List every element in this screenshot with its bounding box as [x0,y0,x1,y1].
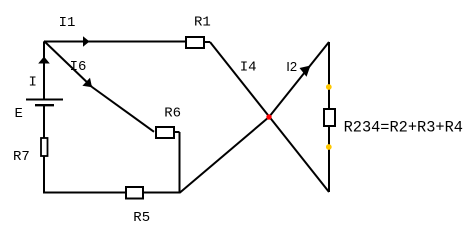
svg-text:I2: I2 [286,59,297,74]
wire R1 right stub [204,41,210,43]
wire battery to R7 [43,105,45,138]
wire I6 diagonal lower segment to R6 [92,87,154,132]
wire R6 right stub [174,131,180,133]
node terminal lower yellow dot [326,144,332,150]
current arrow I2 [300,66,311,77]
battery E short plate [35,104,54,106]
wire I2 lower segment from bottom junction to node [180,117,269,193]
wire R7 to bottom wire [43,156,45,194]
resistor R5 [126,187,143,199]
wire R6 down vertical to bottom junction [179,132,181,194]
svg-text:I4: I4 [240,60,257,76]
svg-text:I6: I6 [70,59,87,75]
wire left vertical from node A down to battery [43,42,45,100]
resistor R1 [186,37,204,48]
node junction red dot [266,114,271,119]
current arrow I6 [82,78,92,88]
resistor R7 [41,138,48,156]
svg-text:E: E [15,106,23,122]
wire I4 diagonal from R1 to bottom vertex [210,42,329,192]
wire right vertical from peak down to bottom vertex [328,42,330,192]
svg-text:R5: R5 [133,210,150,226]
wire bottom right horizontal to junction [143,192,180,194]
battery E long plate [26,99,63,101]
svg-text:I: I [29,75,37,91]
svg-text:R7: R7 [13,149,30,165]
current arrow I1 on top wire [83,36,90,47]
svg-text:I1: I1 [59,15,76,31]
svg-text:R1: R1 [194,15,211,31]
svg-text:R234=R2+R3+R4: R234=R2+R3+R4 [344,118,463,136]
wire bottom left horizontal [44,192,126,194]
node terminal upper yellow dot [326,84,332,90]
wire I6 diagonal upper segment from node A [44,41,92,87]
svg-text:R6: R6 [164,106,181,122]
wire I2 upper segment from node to peak [269,42,329,117]
wire top horizontal from node A to R1 [44,41,185,43]
resistor R6 [156,127,174,138]
resistor R234 [324,109,335,126]
current arrow I upward [38,57,50,64]
